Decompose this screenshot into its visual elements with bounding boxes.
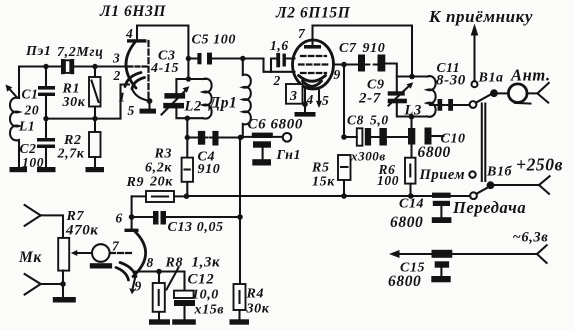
svg-text:910: 910: [363, 41, 386, 56]
inductor L1 with trimmer arrow: [6, 85, 36, 168]
svg-text:Гн1: Гн1: [276, 148, 302, 163]
triode Л1b (pins 6,7,8,9): [110, 211, 154, 295]
svg-text:1: 1: [119, 90, 126, 105]
svg-text:R9: R9: [126, 175, 145, 190]
svg-text:С2: С2: [20, 141, 37, 156]
resistor R9 20к: [126, 175, 187, 203]
svg-text:Пэ1: Пэ1: [25, 44, 52, 59]
node: C1 top junction: [43, 64, 48, 69]
svg-text:В1б: В1б: [486, 165, 513, 180]
svg-text:7,2Мгц: 7,2Мгц: [57, 45, 104, 60]
svg-text:30к: 30к: [246, 302, 270, 317]
inductor L2: [184, 79, 212, 119]
terminal: к приёмнику: [428, 7, 533, 87]
jack Гн1: [276, 133, 302, 163]
svg-text:С8: С8: [347, 113, 364, 128]
svg-text:20: 20: [24, 103, 40, 118]
capacitor C6 6800 with jack Гн1: [240, 117, 303, 160]
node: tank1 top: [186, 76, 191, 81]
tube label Л1 6Н3П: [99, 3, 166, 20]
svg-text:х15в: х15в: [194, 303, 225, 318]
node: cathode pin5 junction: [147, 98, 153, 104]
switch В1б / +250в: [452, 155, 563, 218]
pentode Л2: [293, 26, 341, 89]
ground (R2): [86, 167, 105, 172]
resistor R8 1,3к: [153, 255, 221, 320]
ground (R7): [53, 297, 76, 303]
node: R1/R2 junction: [92, 116, 97, 121]
capacitor C4 910: [187, 131, 240, 177]
svg-text:С7: С7: [339, 41, 357, 56]
tube label Л2 6П15П: [275, 5, 351, 22]
resistor R3 6,2к: [145, 138, 193, 197]
svg-text:R8: R8: [165, 256, 184, 271]
svg-text:2-7: 2-7: [358, 91, 381, 107]
capacitor C11 8-30: [430, 60, 470, 111]
svg-text:С13 0,05: С13 0,05: [168, 220, 224, 235]
wire: R9 left lead down to pin6 node: [131, 196, 133, 217]
node: R6 bus junction: [408, 193, 414, 199]
node: R7 bottom junction: [60, 281, 66, 287]
capacitor C12 10,0 x15в: [174, 272, 224, 320]
svg-text:1,6: 1,6: [270, 38, 289, 53]
svg-text:20к: 20к: [149, 175, 173, 190]
svg-text:6800: 6800: [388, 273, 421, 290]
wire: cathode bias rail C1-R1-R2 to pin 1: [46, 85, 129, 119]
svg-text:1,3к: 1,3к: [192, 255, 221, 271]
node: pin9/C7 junction: [341, 62, 347, 68]
ground (C15): [431, 276, 450, 282]
node: Др1 top tap: [240, 56, 245, 61]
svg-text:2: 2: [273, 73, 281, 88]
capacitor C2 100: [20, 119, 56, 170]
ground (Л2 cathode): [295, 112, 316, 117]
node: R3/R9 bus junction: [184, 193, 190, 199]
ground (pin 5): [140, 109, 157, 114]
svg-text:4-15: 4-15: [150, 61, 179, 76]
svg-text:Передача: Передача: [452, 198, 526, 217]
svg-text:910: 910: [198, 162, 221, 177]
node: crystal/R1 junction: [92, 64, 97, 69]
svg-text:6,2к: 6,2к: [145, 161, 172, 176]
svg-text:15к: 15к: [312, 175, 335, 190]
svg-text:7: 7: [112, 239, 120, 254]
svg-text:К приёмнику: К приёмнику: [428, 7, 533, 26]
inductor L3: [404, 76, 436, 118]
capacitor C14 6800: [390, 193, 451, 231]
svg-text:Прием: Прием: [419, 167, 466, 183]
svg-text:30к: 30к: [62, 95, 86, 110]
heater line ~6,3в with C15 6800: [388, 230, 548, 291]
wire: tank1 down-lead: [186, 118, 188, 137]
capacitor C7 910: [339, 41, 397, 77]
coupling capacitor 1,6: [270, 38, 295, 72]
svg-text:5: 5: [322, 93, 329, 108]
mic jack to grid: [90, 244, 112, 268]
wire: pin9 down to C8/R5: [343, 65, 345, 138]
switch linkage В1: [482, 104, 486, 182]
choke Др1: [208, 59, 251, 138]
node: C8 junction: [341, 134, 347, 140]
svg-text:С1: С1: [22, 87, 39, 102]
svg-text:R4: R4: [246, 287, 265, 302]
capacitor C8 5,0 x300в: [344, 113, 408, 164]
node: Др1 bottom junction: [238, 135, 244, 141]
node: tank2 bottom: [409, 114, 415, 120]
svg-text:100: 100: [377, 173, 399, 188]
antenna Ант.: [498, 66, 551, 104]
capacitor C1 20: [22, 67, 56, 119]
resistor R5 15к: [311, 155, 351, 196]
node: C13/R4 junction: [237, 214, 243, 220]
svg-text:2: 2: [113, 68, 121, 83]
ground (R4): [230, 319, 250, 324]
crystal Пэ1 7,2Мгц: [25, 44, 104, 74]
svg-text:4: 4: [125, 26, 133, 41]
svg-text:Др1: Др1: [208, 95, 238, 112]
node: R5 bus junction: [341, 193, 347, 199]
Л2 cathode, boxed pin 3, heater pins 4,5: [286, 84, 329, 112]
microphone Мк connectors: [18, 205, 63, 295]
resistor R4 30к: [234, 284, 270, 319]
wire: top-left input line to grid of Л1: [19, 67, 128, 99]
tank circuit 2: trimmer C9 2-7: [358, 77, 428, 117]
svg-text:Л2 6П15П: Л2 6П15П: [275, 5, 351, 22]
svg-text:L1: L1: [18, 119, 35, 134]
resistor R1 30к: [62, 67, 101, 119]
svg-text:С6 6800: С6 6800: [248, 117, 303, 133]
svg-text:Ант.: Ант.: [510, 66, 551, 85]
svg-text:6: 6: [116, 211, 123, 226]
node: tank2 top: [409, 74, 415, 80]
node: tank1 bottom: [185, 116, 190, 121]
svg-text:Л1 6Н3П: Л1 6Н3П: [99, 3, 166, 20]
wire: Др1/C4/C6 node down to R4: [239, 137, 241, 284]
wire: drive line to grid pin 2: [264, 59, 295, 89]
potentiometer R7 470к: [58, 209, 98, 297]
wire: tank2 down lead: [410, 117, 412, 158]
node: C5 tap: [186, 56, 191, 61]
ground (C2): [37, 167, 56, 172]
capacitor C10 6800: [408, 128, 466, 162]
triode Л1a (pins 4,3,2,1,5): [112, 26, 150, 118]
svg-text:L2: L2: [184, 99, 202, 115]
ground (R8): [149, 319, 170, 324]
wire: Л2 anode rail: [313, 26, 413, 77]
terminal Прием: [419, 167, 476, 183]
node: pin6 / C13 junction: [129, 214, 135, 220]
svg-text:470к: 470к: [65, 223, 99, 239]
ground (C12): [172, 319, 196, 324]
svg-text:4: 4: [306, 92, 314, 107]
svg-text:R5: R5: [311, 161, 330, 176]
svg-text:9: 9: [334, 67, 341, 82]
svg-text:В1а: В1а: [478, 71, 504, 86]
ground (C6): [252, 159, 271, 165]
resistor R2 2,7к: [57, 119, 101, 167]
svg-text:3: 3: [289, 89, 298, 104]
wire: Л1b cathode to R8/C12: [135, 272, 185, 291]
wire: screen pin 9 line: [334, 63, 359, 65]
switch В1а: [470, 71, 504, 108]
svg-text:R3: R3: [154, 147, 173, 162]
svg-text:8: 8: [147, 255, 154, 270]
ground (left input): [10, 167, 28, 172]
svg-text:3: 3: [112, 51, 120, 66]
wire: anode rail of Л1a: [137, 26, 188, 80]
svg-text:С5 100: С5 100: [192, 33, 236, 48]
svg-text:6800: 6800: [418, 144, 451, 161]
tank circuit 1: trimmer C3 4-15: [150, 49, 206, 119]
svg-text:С14: С14: [399, 197, 424, 212]
svg-text:10,0: 10,0: [192, 288, 219, 303]
capacitor C13 0,05: [132, 211, 240, 235]
svg-text:+250в: +250в: [516, 155, 563, 175]
svg-text:7: 7: [298, 26, 306, 41]
svg-text:~6,3в: ~6,3в: [513, 230, 549, 246]
svg-text:8-30: 8-30: [436, 73, 466, 89]
svg-text:С12: С12: [188, 272, 215, 288]
svg-text:5,0: 5,0: [370, 113, 389, 128]
capacitor C5 100: [188, 33, 263, 65]
wire: pin5 to ground: [148, 101, 150, 109]
node: C1/C2 junction: [43, 116, 48, 121]
wire: main bus to В1б: [187, 195, 471, 197]
ground (C14): [432, 217, 452, 223]
svg-text:5: 5: [128, 103, 135, 118]
svg-text:2,7к: 2,7к: [57, 147, 85, 162]
node: C4/R3 junction: [185, 135, 190, 140]
svg-text:9: 9: [135, 279, 142, 294]
svg-text:6800: 6800: [390, 214, 423, 231]
svg-text:Мк: Мк: [18, 249, 42, 266]
node: cathode/R8 junction: [156, 269, 162, 275]
resistor R6 100: [377, 158, 416, 196]
